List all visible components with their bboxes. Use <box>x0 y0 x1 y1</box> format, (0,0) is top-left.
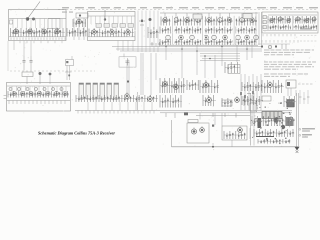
wire - mains verticals at cluster left <box>251 93 255 146</box>
S-meter circuit components <box>262 80 284 93</box>
tube V32 circle <box>268 81 273 87</box>
filter choke L11 (dark bar) <box>258 118 262 128</box>
detector load components <box>225 62 240 73</box>
wire - grid drop lines inside box A <box>13 19 62 29</box>
BFO pitch control sub-assembly <box>65 56 74 80</box>
coupling components on harness <box>139 20 145 25</box>
tube row in box C (V19-V25) <box>9 87 67 95</box>
speaker terminal labels (tiny print) <box>299 128 315 131</box>
junction dot on takeoff line 1 <box>204 55 206 57</box>
tiny labels above variable IF <box>62 12 73 13</box>
chassis pin contacts below box A <box>11 38 65 40</box>
power transformer T10 winding box <box>262 112 282 119</box>
wire - harness continuation to oscillator deck <box>127 53 156 95</box>
filter capacitor C80 (electrolytic) <box>273 117 278 122</box>
wiring harness between tuner and IF strip <box>138 11 158 53</box>
wire - top rail of IF strip <box>160 12 258 14</box>
box D resistor and capacitor lower row <box>268 25 317 30</box>
slug core mark in T1 <box>79 14 81 16</box>
sub-box: oscillator compartment inside box A <box>48 19 60 29</box>
notes paragraph 1 (tiny print) <box>264 50 314 56</box>
tube V3 HF oscillator <box>42 28 47 34</box>
wire - B+ bus bottom of box B <box>88 36 135 38</box>
wire - V5 plate and grid leads <box>74 18 84 40</box>
power wiring component cluster upper <box>252 116 295 126</box>
wire - audio takeoff lines (right stack) <box>200 54 240 59</box>
wire - cathode bus in box A <box>9 36 66 38</box>
box D resistor and capacitor upper row <box>268 16 317 24</box>
wire - vertical interconnects below IF strip <box>166 45 252 78</box>
terminal box for accessory socket <box>228 65 240 74</box>
power wiring component cluster lower <box>254 129 294 137</box>
tube V1 6BA7 RF amplifier <box>14 28 19 34</box>
junction capacitor on bus <box>184 112 188 115</box>
junction dots on distribution buses <box>165 46 248 52</box>
wire - compartment dividers <box>52 19 56 29</box>
tube V5 variable IF amplifier <box>77 18 82 24</box>
filter capacitor C81 <box>281 125 285 129</box>
pin labels below box D (tiny print) <box>263 34 295 36</box>
antenna lead-in wire (diagonal) <box>28 2 40 19</box>
tube V2 first mixer <box>28 28 33 34</box>
audio output coupling components <box>242 82 262 91</box>
wire - bottom rail in box D <box>263 29 317 31</box>
wire - top rail in box C <box>7 85 70 87</box>
capacitor C30 trimmer pair <box>23 56 26 71</box>
wire - top rail in box D <box>268 14 317 16</box>
capacitor lead above rejection box <box>123 54 125 57</box>
antenna coil L1 <box>26 17 29 20</box>
wire - heater bus in box B <box>88 15 135 17</box>
filter choke L10 <box>262 96 271 101</box>
module box: crystal oscillator deck enclosure <box>7 83 71 112</box>
tube V8 third IF amplifier <box>126 28 130 34</box>
product detector component cluster <box>160 95 182 108</box>
section name labels (tiny text) along top rail <box>62 7 318 8</box>
tube V6 first IF amplifier <box>92 28 96 34</box>
part number label inside box D (tiny print) <box>300 28 312 29</box>
wire - accessory socket leads <box>300 90 308 104</box>
harness dropping resistors <box>148 27 159 38</box>
relay box K1 <box>286 80 296 88</box>
antenna terminal labels (tiny print) <box>299 134 312 137</box>
notes paragraph 2 (tiny print) <box>264 62 316 70</box>
wire - grid drop lines inside box C <box>12 86 66 91</box>
stage separation gaps in IF strip <box>171 16 236 45</box>
terminal blocks on left wall of box D <box>263 16 266 29</box>
bias supply components <box>284 96 296 107</box>
antenna trimmer capacitor C1 <box>32 18 35 21</box>
IF transformer shield T8 <box>243 14 252 19</box>
coupling capacitors right of harness <box>151 42 162 47</box>
fuse F1 <box>250 103 256 111</box>
wire - dashed leader row 2 <box>300 40 318 42</box>
wire - antenna input bus <box>9 18 66 20</box>
capacitor C31 trimmer pair <box>30 56 33 71</box>
wire - B+ distribution bus <box>112 46 262 48</box>
middle coupling component row <box>160 27 257 34</box>
scan paper noise speckle (decorative) <box>9 6 316 150</box>
resistor R60 bleeder <box>188 120 198 123</box>
detector diode components <box>187 80 199 90</box>
IF transformer cans T2 T3 T4 T5 T6 <box>96 24 133 28</box>
dropping resistor marks on harness <box>240 91 254 98</box>
wire - bottom rail of crystal bank <box>75 110 160 112</box>
power cluster random dark speckle <box>251 100 291 144</box>
tube V30 circle <box>204 81 209 87</box>
stage gap inside box D <box>291 16 294 30</box>
lower row cathode components <box>160 39 257 45</box>
audio driver component cluster <box>203 95 216 106</box>
module box: rejection tuning <box>119 57 136 67</box>
wire - crystal bank verticals to bottom rail <box>88 102 152 111</box>
selenium rectifier CR1 (dark block) <box>287 100 294 108</box>
module box: audio output and S-meter enclosure <box>262 12 318 33</box>
module box: crystal filter and IF strip enclosure <box>88 12 136 41</box>
AVC and detector component cluster <box>160 78 186 93</box>
audio output stage components <box>224 131 246 139</box>
contact pins below crystal bank <box>78 111 154 114</box>
tube V35 6AQ5 audio output <box>238 126 243 132</box>
wire - padder lead <box>49 75 51 84</box>
module box: audio output sub-box <box>222 126 247 140</box>
upper tube row in box D <box>270 17 316 23</box>
tube V33 rectifier 5Y3 <box>191 127 196 134</box>
contact pins below box C rail <box>9 101 65 105</box>
tube V28 circle <box>163 80 168 86</box>
wire - fuse leads <box>250 95 252 139</box>
variable IF tuning components <box>73 19 86 27</box>
wire - BFO feed verticals from box A <box>14 41 31 57</box>
junction blob on phasing lead <box>127 80 129 82</box>
wire - detector output horizontal run <box>200 60 240 62</box>
IF stage resistor and capacitor row <box>89 29 134 37</box>
relay contact marks <box>287 82 290 86</box>
crystal bank component row <box>76 95 158 102</box>
antenna terminal block <box>10 20 13 24</box>
module box: RF amplifier tuner enclosure <box>9 10 67 41</box>
RF stage resistor and capacitor row <box>11 28 66 37</box>
wire - drops from box B to buses <box>118 41 133 52</box>
wire - AVC bus <box>116 48 262 50</box>
small components hanging below bus <box>166 113 214 127</box>
module box: rectifier sub-box <box>187 123 209 143</box>
terminal ticks outside box C <box>4 96 7 99</box>
tube V31a circle <box>207 96 212 102</box>
wire - leader line to terminal note <box>298 83 313 85</box>
tuning shaft link with arrow <box>104 10 106 19</box>
wire - verticals between strip and box D <box>256 12 262 45</box>
tube V29 circle <box>174 83 179 89</box>
wire - grid drop lines inside box B <box>91 16 132 24</box>
second pin label row below box D <box>262 40 298 43</box>
tube V27 circle <box>148 95 153 101</box>
tube V7 second IF amplifier <box>110 28 114 34</box>
svg-text:Schematic Diagram Collins 75A-: Schematic Diagram Collins 75A-3 Receiver <box>38 131 115 136</box>
terminal strip row <box>258 139 290 144</box>
tone network components <box>222 98 233 107</box>
junction dot on ground bus <box>212 146 214 148</box>
wire - audio bus lines <box>160 110 292 112</box>
trimmer capacitor C32 <box>39 72 42 75</box>
bandswitch wafer stack (vertical stripes) <box>79 83 119 99</box>
wire - mechanical link dashed line <box>10 70 95 72</box>
terminal strip box in audio section <box>222 100 232 106</box>
upper IF row plate and screen components <box>161 17 257 26</box>
upper tube row of IF strip (V9-V13) <box>163 13 255 22</box>
socket contact marks <box>299 97 310 99</box>
wire - dark primary leads <box>256 136 274 138</box>
padder capacitor C33 <box>49 73 52 76</box>
variable IF coupling components <box>67 28 87 37</box>
IF transformer shield T7 <box>193 14 202 19</box>
meter rectifier components row <box>258 44 290 49</box>
crystal Y1 holder <box>22 72 33 77</box>
ground symbol at bottom right <box>295 147 300 153</box>
wire - power feed verticals <box>288 88 296 96</box>
rectifier selenium stack (dark block) <box>286 117 293 126</box>
oscillator deck component row <box>8 91 69 98</box>
tube V34 OA2 regulator <box>200 126 205 132</box>
tube V4 second mixer <box>55 28 60 34</box>
wire - bottom rail in box C <box>7 100 70 102</box>
wire - oscillator leads <box>26 77 28 85</box>
first audio stage components <box>200 80 219 93</box>
feedback network components <box>242 96 262 105</box>
wire - dashed leader row 1 <box>300 34 318 36</box>
wire - vertical divider in crystal bank <box>137 92 139 110</box>
wire - vertical harness left of power section <box>241 74 261 110</box>
junction dot on takeoff line 2 <box>209 58 211 60</box>
wire - strip bottom rail <box>160 44 258 46</box>
variable capacitor in rejection box <box>126 58 130 65</box>
tube V31 circle <box>235 96 240 102</box>
IF transformer T1 slug rack <box>76 13 88 18</box>
feedthrough ticks below box A <box>20 41 62 44</box>
tube V9a calibration oscillator <box>149 18 152 21</box>
section label rail (dashed) across top <box>58 9 318 11</box>
wire - power section verticals <box>200 113 232 147</box>
module box: power supply chassis outline <box>172 93 299 147</box>
wire - heater distribution bus <box>120 50 262 52</box>
scattered components right of limiter <box>243 96 248 106</box>
tube V26 circle <box>125 92 130 98</box>
bypass capacitors below bus <box>213 113 236 118</box>
wire - box A left frame continuation <box>7 41 9 71</box>
lower tube row of IF strip (V14-V18) <box>166 35 259 40</box>
notes paragraph 3 (tiny print) <box>264 74 308 77</box>
